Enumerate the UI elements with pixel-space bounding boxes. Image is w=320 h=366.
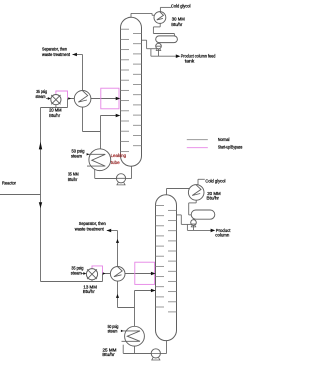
svg-text:Separator, then: Separator, then (79, 221, 106, 227)
svg-text:steam: steam (36, 94, 46, 100)
svg-text:Btu/hr: Btu/hr (68, 177, 78, 183)
svg-text:30 MM: 30 MM (172, 17, 185, 23)
svg-text:Normal: Normal (218, 137, 230, 143)
svg-text:35 MM: 35 MM (68, 172, 79, 178)
svg-text:Btu/hr: Btu/hr (83, 289, 95, 295)
svg-text:column: column (215, 232, 229, 238)
svg-text:Btu/hr: Btu/hr (102, 352, 115, 358)
svg-text:steam: steam (71, 271, 82, 277)
svg-text:Separator, then: Separator, then (42, 47, 67, 53)
svg-text:Reactor: Reactor (2, 180, 16, 186)
svg-text:Cold glycol: Cold glycol (205, 178, 225, 184)
svg-text:steam: steam (108, 329, 118, 335)
svg-text:tube: tube (111, 160, 120, 166)
svg-text:Btu/hr: Btu/hr (207, 196, 220, 202)
svg-text:35 psig: 35 psig (71, 265, 83, 271)
svg-text:steam: steam (71, 153, 82, 159)
svg-text:waste treatment: waste treatment (42, 52, 71, 58)
svg-text:20 MM: 20 MM (49, 108, 62, 114)
svg-text:Leaking: Leaking (111, 153, 127, 159)
svg-text:Btu/hr: Btu/hr (49, 113, 60, 119)
svg-text:Cold glycol: Cold glycol (171, 4, 191, 10)
svg-text:Btu/hr: Btu/hr (171, 22, 182, 28)
svg-text:Start-up/Bypass: Start-up/Bypass (218, 145, 243, 151)
svg-text:tank: tank (185, 58, 195, 64)
svg-text:waste treatment: waste treatment (75, 226, 105, 232)
